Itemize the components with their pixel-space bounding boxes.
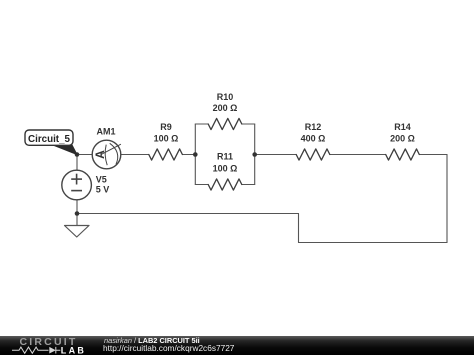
- logo doodle diode: [49, 347, 56, 354]
- wire AM1 to R9: [121, 154, 149, 156]
- svg-text:R9: R9: [160, 122, 172, 132]
- resistor R9 body: [149, 149, 183, 160]
- svg-text:http://circuitlab.com/ckqrw2c6: http://circuitlab.com/ckqrw2c6s7727: [103, 343, 235, 353]
- wire node A to V5: [76, 155, 78, 171]
- resistor R11 body: [208, 179, 242, 190]
- node B junction dot: [193, 152, 198, 157]
- node A junction dot: [75, 152, 80, 157]
- wire bottom step vertical: [298, 214, 300, 243]
- wire bottom lower horizontal: [299, 242, 448, 244]
- svg-text:R11: R11: [217, 151, 233, 161]
- wire parallel right vertical: [254, 124, 256, 185]
- wire bottom branch right: [242, 184, 255, 186]
- wire R14 to right corner: [419, 154, 447, 156]
- svg-text:100 Ω: 100 Ω: [154, 133, 179, 143]
- wire node A to AM1: [77, 154, 92, 156]
- svg-text:200 Ω: 200 Ω: [390, 133, 415, 143]
- svg-text:AM1: AM1: [96, 126, 115, 136]
- svg-text:LAB: LAB: [61, 345, 86, 355]
- svg-text:100 Ω: 100 Ω: [213, 163, 238, 173]
- wire top branch right: [242, 123, 255, 125]
- svg-text:5 V: 5 V: [96, 185, 110, 195]
- wire ground stub: [76, 214, 78, 226]
- voltage source V5: [62, 170, 92, 200]
- wire parallel left vertical: [194, 124, 196, 185]
- wire R9 to node B: [182, 154, 195, 156]
- resistor R12 body: [296, 149, 330, 160]
- wire R12 to R14: [330, 154, 386, 156]
- wire top branch left: [195, 123, 208, 125]
- svg-text:R10: R10: [217, 92, 234, 102]
- ground: [65, 226, 90, 238]
- resistor R10 body: [208, 118, 242, 129]
- label Circuit_5 box: [25, 130, 73, 145]
- svg-text:R14: R14: [394, 122, 411, 132]
- wire right vertical: [446, 155, 448, 243]
- wire node C to R12: [255, 154, 297, 156]
- svg-text:R12: R12: [305, 122, 322, 132]
- wire bottom upper horizontal: [77, 213, 299, 215]
- logo doodle wire: [12, 347, 60, 354]
- ammeter AM1: [92, 140, 121, 169]
- node C junction dot: [252, 152, 257, 157]
- svg-text:Circuit_5: Circuit_5: [28, 134, 70, 145]
- ground node junction dot: [75, 211, 80, 216]
- resistor R14 body: [386, 149, 420, 160]
- wire bottom branch left: [195, 184, 208, 186]
- svg-text:200 Ω: 200 Ω: [213, 103, 238, 113]
- wire V5 to ground node: [76, 200, 78, 214]
- svg-text:A: A: [93, 150, 107, 159]
- svg-text:400 Ω: 400 Ω: [301, 133, 326, 143]
- svg-text:V5: V5: [96, 174, 107, 184]
- label Circuit_5 callout pointer: [52, 144, 77, 155]
